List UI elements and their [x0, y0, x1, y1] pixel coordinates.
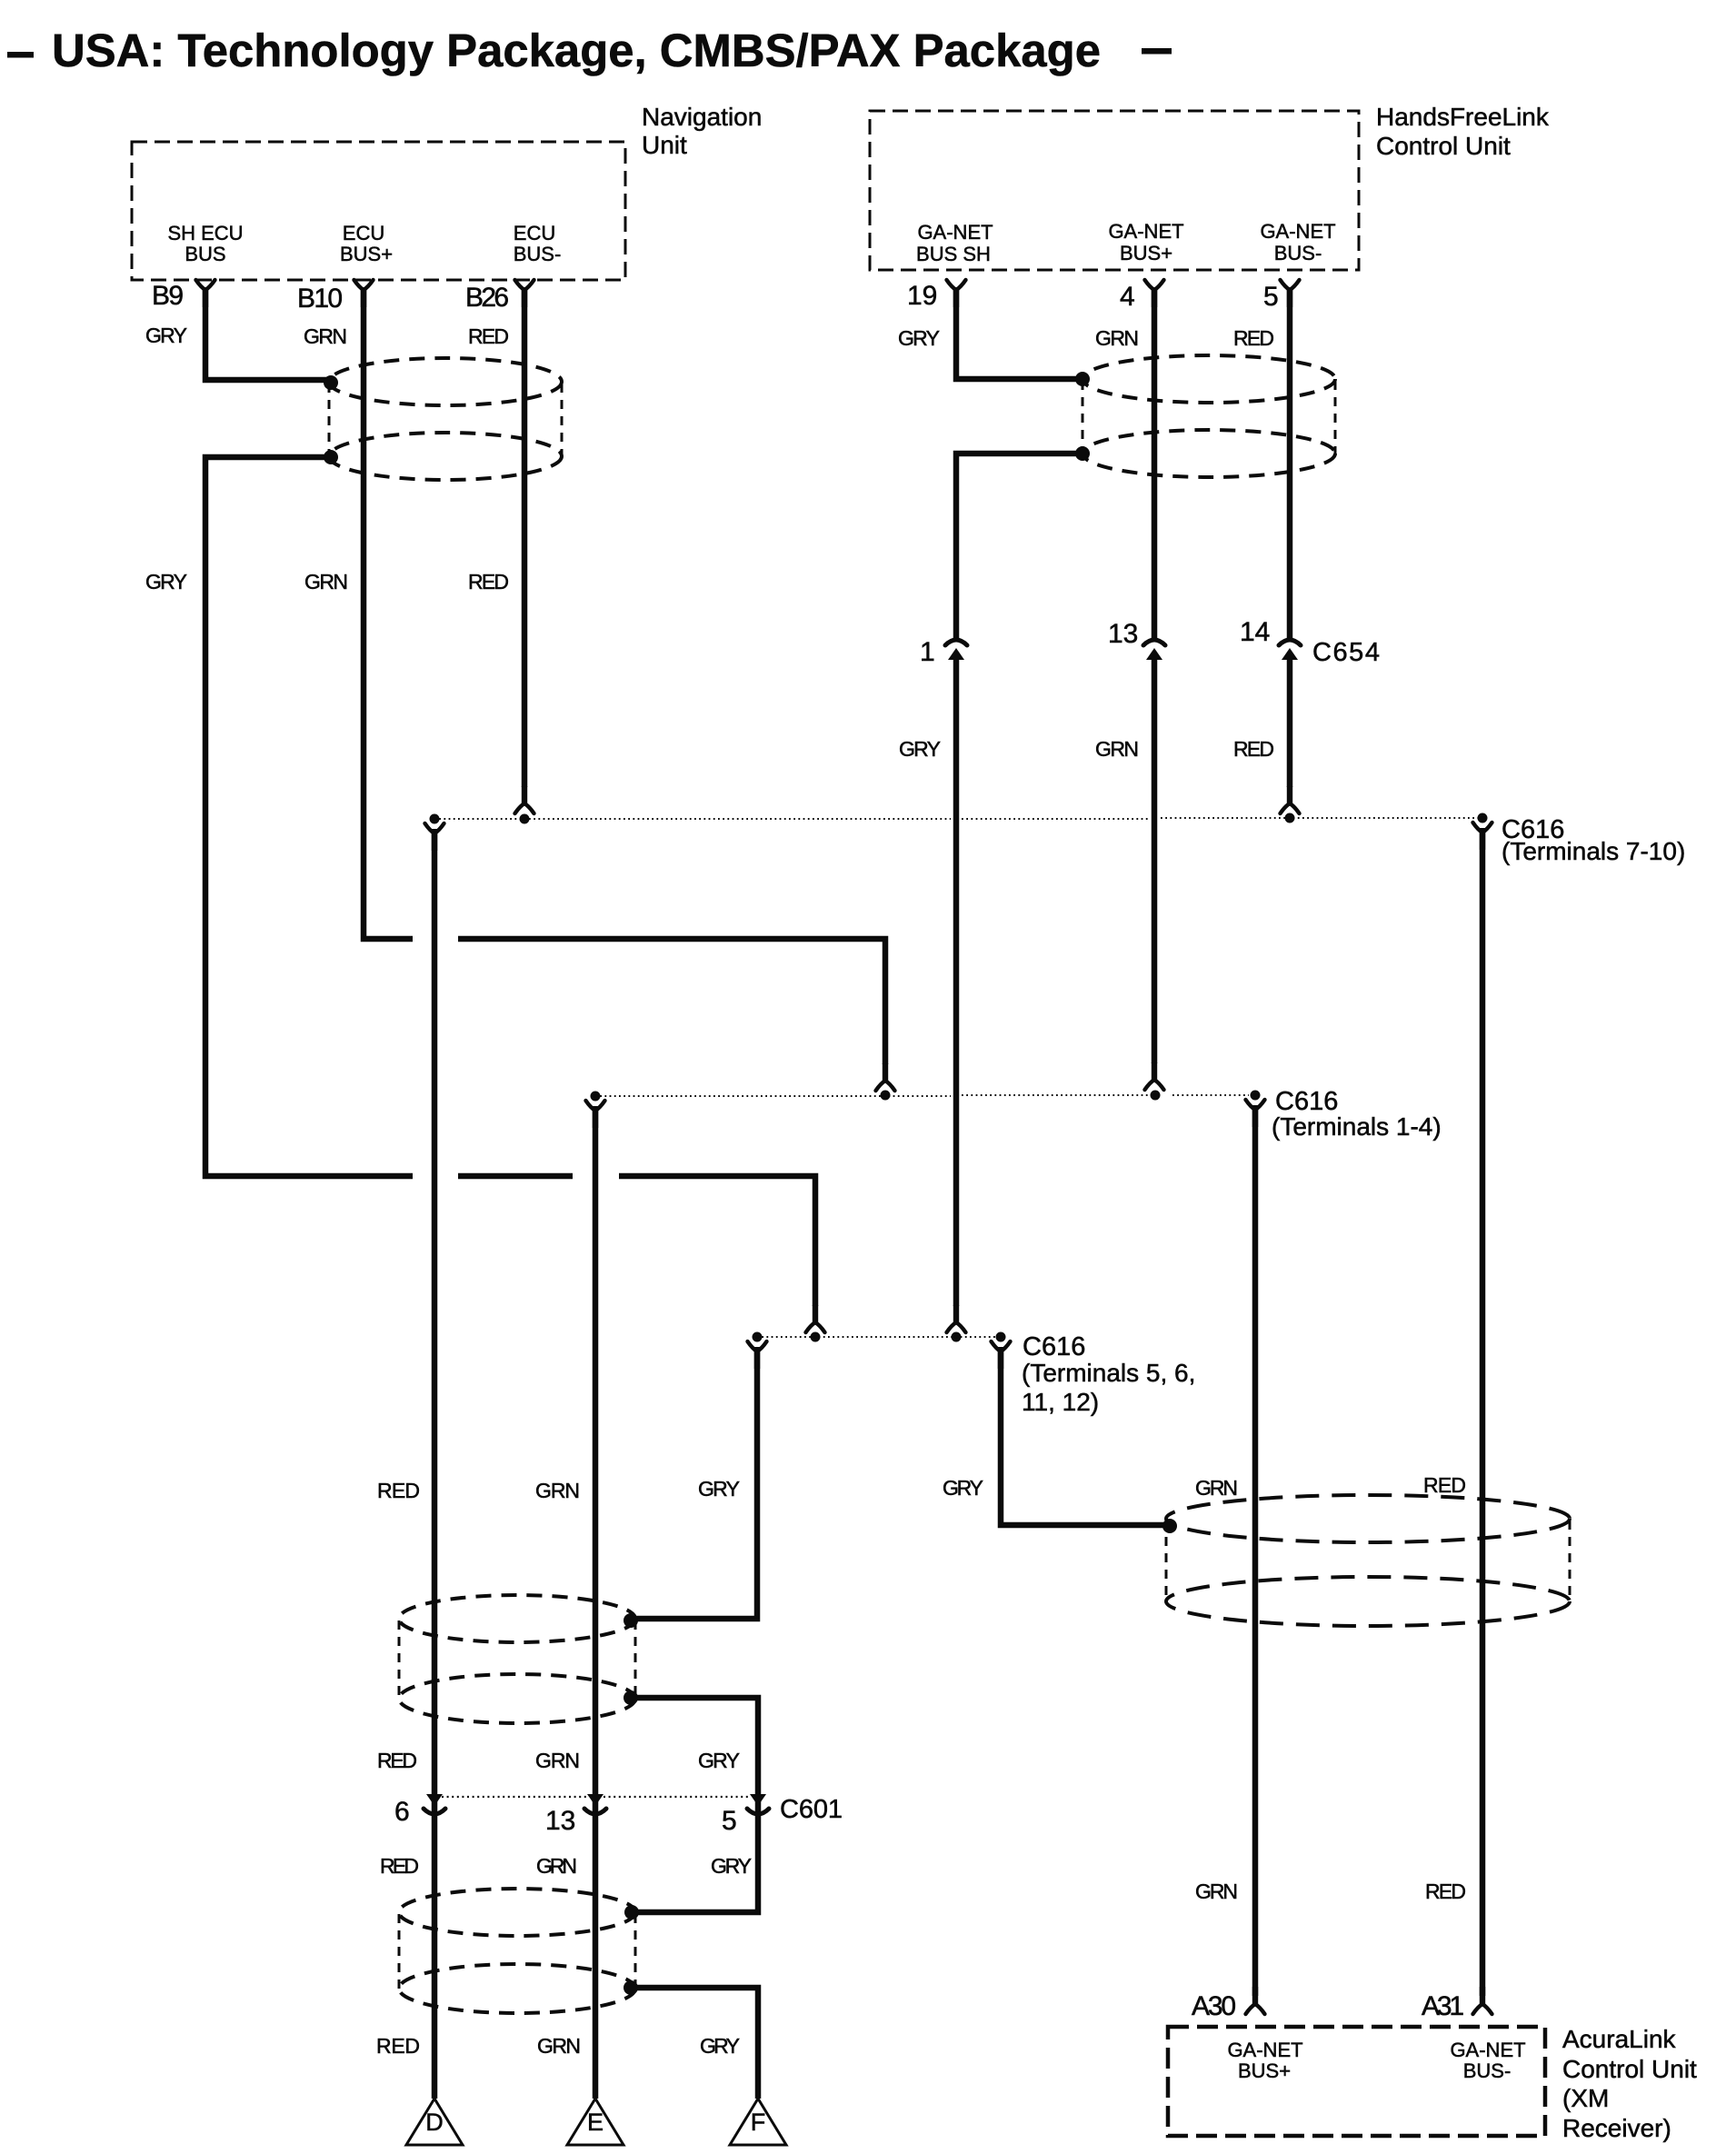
- connector line C616 terminals 7-10: [434, 818, 1482, 819]
- svg-text:RED: RED: [1233, 326, 1274, 350]
- svg-text:GA-NET: GA-NET: [917, 221, 993, 244]
- svg-text:RED: RED: [1233, 737, 1274, 761]
- junction dot nav shield top: [324, 375, 338, 390]
- svg-text:RED: RED: [380, 1854, 419, 1878]
- svg-text:4: 4: [1120, 282, 1135, 312]
- svg-text:B9: B9: [152, 281, 184, 311]
- svg-text:GRN: GRN: [1095, 326, 1139, 350]
- inline connector C654 pin 1: [945, 640, 967, 660]
- svg-text:A31: A31: [1422, 1991, 1464, 2021]
- svg-text:RED: RED: [1425, 1880, 1466, 1903]
- svg-text:C616: C616: [1023, 1332, 1085, 1361]
- fork red into acuralink A31: [1473, 1987, 1492, 2014]
- wire GRY cylB to triangle F: [631, 1988, 758, 2099]
- svg-text:GRY: GRY: [700, 2034, 740, 2058]
- navigation unit box: [132, 142, 625, 280]
- terminal dot C616 t9: [1285, 813, 1295, 823]
- svg-text:GRY: GRY: [943, 1476, 983, 1500]
- junction dot nav shield bottom: [324, 450, 338, 464]
- svg-text:14: 14: [1240, 617, 1270, 647]
- svg-text:GRN: GRN: [1195, 1476, 1238, 1500]
- wire B10 GRN nav: [364, 287, 413, 939]
- inline connector C601 pin 6: [424, 1794, 445, 1814]
- wire gry jog segment 3: [619, 1176, 815, 1306]
- terminal dot C616 t6: [811, 1332, 821, 1342]
- connector line C601: [442, 1796, 750, 1798]
- svg-text:GRN: GRN: [1095, 737, 1139, 761]
- inline connector C654 pin 13: [1143, 640, 1165, 660]
- acuralink box: [1168, 2027, 1545, 2136]
- svg-text:B10: B10: [297, 284, 343, 314]
- fork red out of C616 to A31: [1473, 823, 1492, 850]
- wire hfl red below C654: [1287, 655, 1293, 787]
- svg-text:RED: RED: [1423, 1473, 1466, 1497]
- svg-text:BUS+: BUS+: [1238, 2059, 1291, 2082]
- fork gry out of C616 right: [992, 1341, 1011, 1369]
- svg-text:GA-NET: GA-NET: [1227, 2039, 1302, 2061]
- svg-text:13: 13: [545, 1806, 575, 1836]
- fork gry out of C616 left: [748, 1341, 767, 1369]
- terminal dot C616 t11: [952, 1332, 962, 1342]
- svg-text:BUS: BUS: [185, 243, 225, 265]
- junction dot cylA bottom: [624, 1690, 638, 1705]
- terminal fork 19: [947, 280, 966, 307]
- svg-text:5: 5: [1263, 282, 1279, 312]
- svg-text:GA-NET: GA-NET: [1450, 2039, 1525, 2061]
- svg-text:GRY: GRY: [698, 1477, 740, 1501]
- svg-text:Control Unit: Control Unit: [1376, 132, 1511, 160]
- svg-text:GA-NET: GA-NET: [1108, 220, 1183, 243]
- wire hfl grn below C654: [1152, 655, 1158, 1063]
- svg-text:C601: C601: [780, 1795, 843, 1824]
- svg-text:GRN: GRN: [537, 2034, 581, 2058]
- junction dot cylB bottom: [624, 1980, 638, 1995]
- terminal fork B26: [515, 280, 534, 307]
- svg-text:GRY: GRY: [698, 1749, 740, 1772]
- wire GRY cylA to cylB: [631, 1698, 758, 1912]
- svg-text:(Terminals 1-4): (Terminals 1-4): [1272, 1112, 1442, 1141]
- svg-text:RED: RED: [468, 570, 509, 593]
- svg-text:1: 1: [920, 637, 935, 667]
- wire RED to A31: [1480, 828, 1486, 1996]
- svg-text:USA: Technology Package, CMBS/: USA: Technology Package, CMBS/PAX Packag…: [52, 25, 1101, 76]
- fork grn nav into C616: [876, 1063, 895, 1091]
- svg-text:RED: RED: [377, 1749, 417, 1772]
- wire GRN to triangle E: [593, 1106, 599, 2099]
- fork gry jog into C616: [806, 1305, 825, 1332]
- triangle D: [406, 2099, 463, 2145]
- svg-text:GRN: GRN: [304, 324, 347, 348]
- svg-text:GRY: GRY: [145, 570, 187, 593]
- inline connector C601 pin 13: [584, 1794, 606, 1814]
- svg-text:AcuraLink: AcuraLink: [1562, 2025, 1677, 2053]
- wire GRY line3 right to big cylinder: [1001, 1347, 1167, 1525]
- terminal fork B10: [354, 280, 374, 307]
- svg-text:Receiver): Receiver): [1562, 2114, 1671, 2142]
- svg-text:A30: A30: [1192, 1991, 1236, 2021]
- inline connector C601 pin 5: [747, 1794, 769, 1814]
- triangle E: [567, 2099, 624, 2145]
- svg-text:RED: RED: [468, 324, 509, 348]
- svg-text:SH ECU: SH ECU: [167, 222, 243, 244]
- svg-text:GRY: GRY: [899, 737, 941, 761]
- svg-text:5: 5: [722, 1806, 737, 1836]
- terminal dot C616 t7: [430, 814, 440, 824]
- wire B9 GRY nav: [205, 287, 331, 380]
- handsfreelink box: [870, 111, 1359, 270]
- svg-text:C654: C654: [1312, 638, 1380, 667]
- wire gry jog segment 2: [458, 1173, 573, 1180]
- svg-text:(Terminals 5, 6,: (Terminals 5, 6,: [1022, 1359, 1195, 1387]
- wire GRN to A30: [1252, 1105, 1259, 1996]
- junction dot hfl shield top: [1075, 372, 1090, 386]
- svg-text:GA-NET: GA-NET: [1260, 220, 1335, 243]
- svg-text:BUS-: BUS-: [514, 243, 562, 265]
- terminal fork B9: [196, 280, 215, 307]
- terminal dot C616 t5: [753, 1332, 763, 1342]
- wire hfl gry below C654: [953, 655, 960, 1306]
- svg-text:Unit: Unit: [642, 131, 687, 159]
- fork red out of C616 to D: [425, 823, 444, 851]
- svg-text:GRN: GRN: [304, 570, 348, 593]
- wire 5 RED hfl: [1287, 287, 1293, 641]
- fork hfl gry into C616: [947, 1305, 966, 1332]
- svg-text:GRN: GRN: [1195, 1880, 1238, 1903]
- svg-text:ECU: ECU: [514, 222, 555, 244]
- junction dot cylB top: [624, 1905, 639, 1920]
- svg-text:GRN: GRN: [535, 1479, 580, 1502]
- fork hfl grn into C616: [1145, 1062, 1164, 1090]
- fork red nav into C616: [515, 786, 534, 813]
- inline connector C654 pin 14: [1279, 640, 1301, 660]
- svg-text:RED: RED: [376, 2034, 420, 2058]
- svg-text:GRY: GRY: [711, 1854, 752, 1878]
- svg-text:19: 19: [907, 281, 937, 311]
- junction dot hfl shield bottom: [1075, 446, 1090, 461]
- title dash right: [1142, 48, 1172, 55]
- connector line C616 terminals 1-4: [595, 1095, 1249, 1096]
- connector line C616 terminals 5 6 11 12: [757, 1336, 1001, 1338]
- svg-text:RED: RED: [377, 1479, 420, 1502]
- svg-text:ECU: ECU: [343, 222, 384, 244]
- svg-text:Navigation: Navigation: [642, 103, 762, 131]
- terminal dot C616 t2: [881, 1091, 891, 1101]
- svg-text:E: E: [587, 2109, 604, 2136]
- shield cylinder acuralink: [1166, 1495, 1570, 1626]
- svg-text:GRY: GRY: [898, 326, 940, 350]
- shield cylinder handsfreelink: [1083, 355, 1335, 477]
- svg-text:BUS SH: BUS SH: [916, 243, 991, 265]
- terminal dot C616 t10: [1478, 813, 1488, 823]
- shield cylinder nav unit: [329, 358, 562, 480]
- terminal dot C616 t12: [996, 1332, 1006, 1342]
- svg-text:BUS+: BUS+: [1120, 242, 1172, 264]
- triangle F: [730, 2099, 786, 2145]
- fork hfl red into C616: [1281, 786, 1300, 813]
- svg-text:BUS+: BUS+: [340, 243, 393, 265]
- wire shield nav continuation: [205, 457, 413, 1176]
- wire B26 RED nav: [522, 287, 528, 787]
- svg-text:Control Unit: Control Unit: [1562, 2055, 1697, 2083]
- terminal fork 4: [1145, 280, 1164, 307]
- svg-text:11, 12): 11, 12): [1022, 1388, 1099, 1416]
- svg-text:BUS-: BUS-: [1274, 242, 1322, 264]
- title dash left: [7, 52, 34, 58]
- svg-text:13: 13: [1108, 619, 1138, 649]
- terminal dot C616 t8: [520, 814, 530, 824]
- svg-text:(Terminals 7-10): (Terminals 7-10): [1502, 837, 1685, 865]
- wire GRY line3 to cylinder A: [634, 1347, 757, 1619]
- junction dot big cylinder shield: [1162, 1519, 1177, 1533]
- fork grn out of C616 to E: [586, 1101, 605, 1128]
- shield cylinder lower-left lower: [399, 1889, 635, 2013]
- svg-text:6: 6: [394, 1797, 410, 1827]
- wire 4 GRN hfl: [1152, 287, 1158, 641]
- terminal fork 5: [1281, 280, 1300, 307]
- wire RED to triangle D: [432, 829, 438, 2099]
- wire grn jog segment 2: [458, 939, 885, 1064]
- terminal dot C616 t4: [1251, 1091, 1261, 1101]
- svg-text:BUS-: BUS-: [1463, 2059, 1512, 2082]
- shield cylinder lower-left upper: [399, 1595, 635, 1723]
- junction dot cylA top: [624, 1613, 638, 1628]
- svg-text:HandsFreeLink: HandsFreeLink: [1376, 103, 1550, 131]
- fork grn into acuralink A30: [1246, 1987, 1265, 2014]
- svg-text:F: F: [751, 2109, 766, 2136]
- svg-text:GRN: GRN: [535, 1749, 580, 1772]
- wire hfl shield continuation: [956, 454, 1083, 641]
- svg-text:(XM: (XM: [1562, 2084, 1609, 2112]
- svg-text:B26: B26: [465, 283, 509, 313]
- terminal dot C616 t3: [1151, 1091, 1161, 1101]
- svg-text:GRN: GRN: [536, 1854, 577, 1878]
- svg-text:GRY: GRY: [145, 324, 187, 347]
- wire 19 GRY hfl: [956, 287, 1078, 379]
- terminal dot C616 t1: [591, 1092, 601, 1102]
- svg-text:D: D: [425, 2109, 444, 2136]
- fork grn out of C616 to A30: [1246, 1100, 1265, 1127]
